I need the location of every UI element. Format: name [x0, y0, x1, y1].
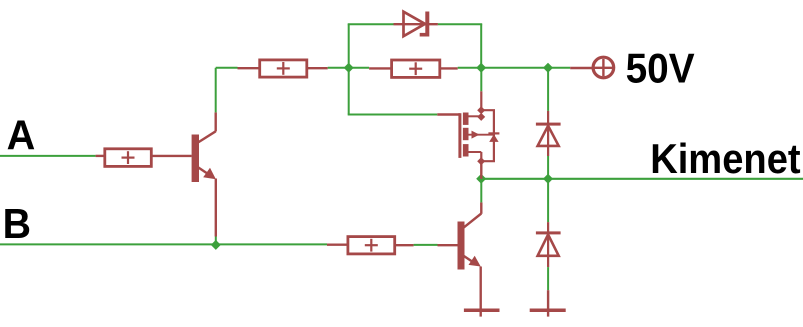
- wire Q2 base pin (red): [438, 244, 458, 246]
- wire D2-Kimenet net (green): [547, 156, 549, 179]
- wire R4-Q2 net segment (green): [414, 244, 438, 246]
- wire Q1 collector pin (red): [214, 112, 216, 131]
- wire net B (input B horizontal): [0, 243, 327, 245]
- ground GND1: [464, 309, 500, 313]
- node junction Kimenet / diode column: [543, 174, 553, 184]
- wire D1 leads (red through line): [394, 23, 438, 25]
- wire net Kimenet (output horizontal): [481, 178, 803, 180]
- wire R4 left lead: [327, 243, 348, 245]
- wire supply lead (red): [570, 67, 592, 69]
- wire ground pin (red): [547, 290, 549, 316]
- wire drain net (green vertical to mid rail): [480, 68, 482, 91]
- wire MOSFET source pin (red vertical to Kimenet): [480, 161, 482, 179]
- node MOSFET drain dot lower: [477, 113, 485, 121]
- wire MOSFET gate pin (red): [437, 113, 460, 115]
- wire R2 left lead (red): [238, 67, 260, 69]
- wire Q1 collector net (green vertical): [215, 68, 217, 113]
- wire R3 left lead (red): [369, 67, 392, 69]
- wire MOSFET drain pin (red vertical): [480, 91, 482, 110]
- wire mid rail green right segment: [458, 67, 571, 69]
- wire R1 left lead: [96, 155, 105, 157]
- node junction Kimenet / MOSFET source: [476, 174, 486, 184]
- ground GND2: [530, 309, 566, 313]
- wire top rail green right: [438, 23, 482, 25]
- resistor R1: [105, 149, 152, 167]
- transistor Q1 (NPN): [192, 131, 216, 182]
- wire gate row net (green vertical from mid rail): [348, 68, 350, 115]
- wire Q1 emitter pin down (red): [215, 179, 217, 237]
- diode D3 (cathode up): [536, 222, 561, 267]
- wire top loop right vertical (green): [480, 24, 482, 68]
- diode D2 (cathode up): [536, 111, 561, 156]
- diode D1 (top, anode left): [404, 12, 430, 37]
- wire R4 right lead (red): [395, 244, 414, 246]
- wire R2 right lead (red): [307, 67, 328, 69]
- MOSFET Q3 (P-channel with body diode): [458, 110, 499, 161]
- wire net A (input A horizontal): [0, 155, 96, 157]
- node MOSFET source dot: [477, 157, 485, 165]
- wire R1 right lead to Q1 base: [151, 155, 191, 157]
- wire Q1 emitter net to B (green): [215, 237, 217, 245]
- svg-text:B: B: [3, 200, 31, 247]
- wire Q2 collector pin (red): [480, 202, 482, 213]
- node MOSFET drain dot upper: [477, 106, 485, 114]
- wire D2 top net (green): [547, 68, 549, 111]
- resistor R2: [260, 60, 307, 77]
- node junction B / Q1 emitter: [211, 240, 221, 250]
- wire top rail green left: [348, 23, 394, 25]
- resistor R4: [348, 237, 395, 254]
- node junction mid rail / top loop left: [344, 63, 354, 73]
- svg-text:Kimenet: Kimenet: [650, 135, 801, 182]
- svg-text:A: A: [7, 111, 36, 158]
- wire Q2 emitter pin to ground (red): [480, 267, 482, 317]
- node junction mid rail / MOSFET drain column: [476, 63, 486, 73]
- wire mid rail green to junction: [328, 67, 369, 69]
- transistor Q2 (NPN): [458, 214, 482, 270]
- svg-text:50V: 50V: [626, 45, 695, 92]
- wire R3 right lead (red): [440, 67, 458, 69]
- wire D3-ground net (green): [547, 267, 549, 290]
- wire mid rail green left segment: [216, 67, 238, 69]
- wire Kimenet-D3 net (green): [547, 179, 549, 222]
- node junction mid rail / diode column: [543, 63, 553, 73]
- wire top loop left vertical (green): [348, 24, 350, 69]
- supply terminal +50V circle: [593, 57, 614, 78]
- wire gate row net (green horizontal): [348, 114, 438, 116]
- wire Q2 collector net (green): [480, 179, 482, 203]
- resistor R3: [392, 60, 440, 77]
